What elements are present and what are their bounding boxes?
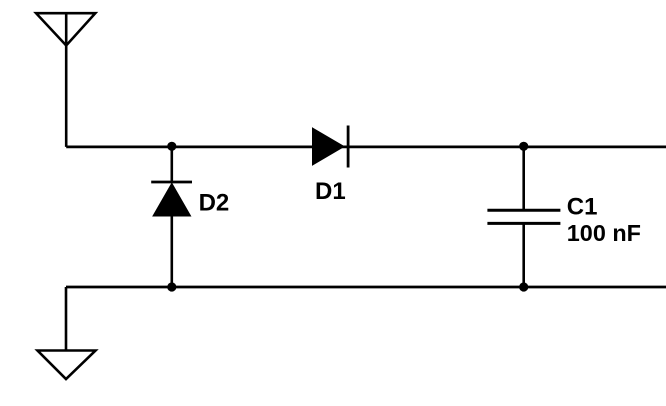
node junction dot bottom of C1: [519, 282, 528, 291]
svg-text:D2: D2: [199, 190, 230, 217]
svg-text:C1: C1: [567, 194, 598, 221]
wire ground lead: [65, 287, 68, 351]
node junction dot top of D2: [167, 142, 176, 151]
wire antenna lead: [65, 13, 68, 147]
wire top rail: [66, 145, 666, 148]
node junction dot bottom of D2: [167, 282, 176, 291]
wire D2 lower lead: [171, 216, 174, 287]
svg-text:100 nF: 100 nF: [567, 220, 641, 246]
diode D2: [151, 182, 192, 216]
wire D2 upper lead: [171, 146, 174, 182]
wire bottom rail: [66, 286, 666, 289]
antenna ANT1: [36, 13, 95, 45]
diode D1: [313, 126, 349, 168]
svg-text:D1: D1: [315, 178, 346, 205]
wire C1 lower lead: [522, 223, 525, 287]
node junction dot top of C1: [519, 142, 528, 151]
ground GND: [38, 351, 96, 380]
wire C1 upper lead: [522, 146, 525, 210]
capacitor C1: [487, 210, 560, 223]
